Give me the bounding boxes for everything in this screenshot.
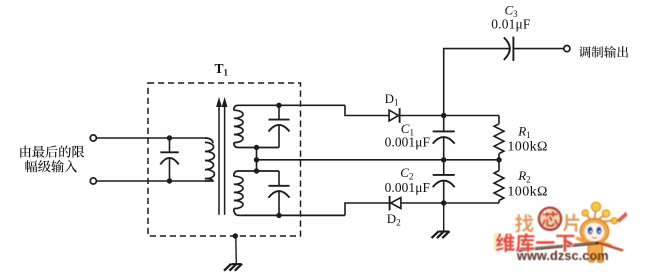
ground (shield) [224,264,231,271]
diode D1 [389,110,398,121]
inductor: T1 secondary top winding [234,105,345,110]
capacitor C1 [443,116,445,132]
transformer core line 2 with arrow [224,105,226,215]
node: shield ground tap on dashed box [233,233,238,238]
wire: D1 to top node to R1 [400,115,499,117]
capacitor: primary tank cap [160,151,178,153]
wire: shield ground lead [235,236,238,264]
output terminal [564,46,570,52]
watermark pencil/sword [519,243,599,250]
transformer shield box T1 (dashed) [148,83,301,236]
node: R1/R2 junction [496,157,501,162]
resistor R2 [498,160,500,171]
wire: bottom secondary to D2 (jog) [345,203,390,215]
watermark mascot crown balls [582,202,617,224]
node: center tap middle [254,157,259,162]
watermark mascot crown stalks [586,209,613,222]
wire: C3 to output terminal [513,48,564,50]
resistor R1 [498,116,500,124]
node: middle node at C1/C2 [441,157,446,162]
node: bottom node [441,200,446,205]
watermark text pian (chip) [563,214,580,232]
label: modulated output [579,46,628,58]
wire: input bottom [97,180,206,182]
watermark mascot arms [577,238,590,243]
wire: primary cap bottom lead [169,158,171,181]
wire: primary cap top lead [169,138,171,152]
svg-text:www.dzsc.com: www.dzsc.com [516,249,609,263]
watermark pale yellow smear [494,233,502,252]
wire: center tap vertical [256,148,258,172]
wire: input top [97,137,206,139]
capacitor C3 (coupling) [504,37,510,60]
transformer core line 1 with arrow [218,105,220,215]
input terminal bottom [90,178,96,184]
svg-text:0.001μF: 0.001μF [385,134,430,149]
watermark mascot head [580,219,608,244]
node: primary top junction [167,135,172,140]
wire: bottom node to ground [443,203,445,231]
wire: middle line (center tap to R junction) [257,159,500,161]
watermark mascot body [588,243,603,259]
watermark magnifier [540,209,560,229]
node: center tap bottom [254,168,259,173]
ground (detector) [432,231,439,238]
node: center tap top [254,145,259,150]
diode D2 [389,196,391,211]
svg-text:0.001μF: 0.001μF [385,180,430,195]
node: top node [441,113,446,118]
svg-text:100kΩ: 100kΩ [507,185,547,200]
capacitor C2 [443,160,445,175]
input terminal top [90,135,96,141]
wire: top secondary to D1 (jog) [345,105,389,115]
wire: top node up to C3 [444,49,510,116]
capacitor: secondary top tank cap [278,105,280,119]
watermark text zhao (find) [515,214,534,232]
wire: D2 to bottom node to R2 [401,202,499,204]
svg-text:100kΩ: 100kΩ [507,140,547,155]
watermark mascot feet [588,258,595,262]
label: input description line 1 [20,146,84,158]
node: secondary bottom cap junction [276,213,281,218]
node: secondary top cap junction [276,103,281,108]
capacitor: secondary bottom tank cap [278,171,280,186]
label: input description line 2 [25,160,77,172]
watermark mascot red pennant [617,212,628,223]
inductor: T1 primary winding [205,138,213,143]
watermark mascot eyes [588,227,593,235]
watermark text weiku yixia [496,233,575,252]
node: primary bottom junction [167,178,172,183]
inductor: T1 secondary bottom winding [234,171,279,176]
svg-text:0.01μF: 0.01μF [491,16,530,31]
